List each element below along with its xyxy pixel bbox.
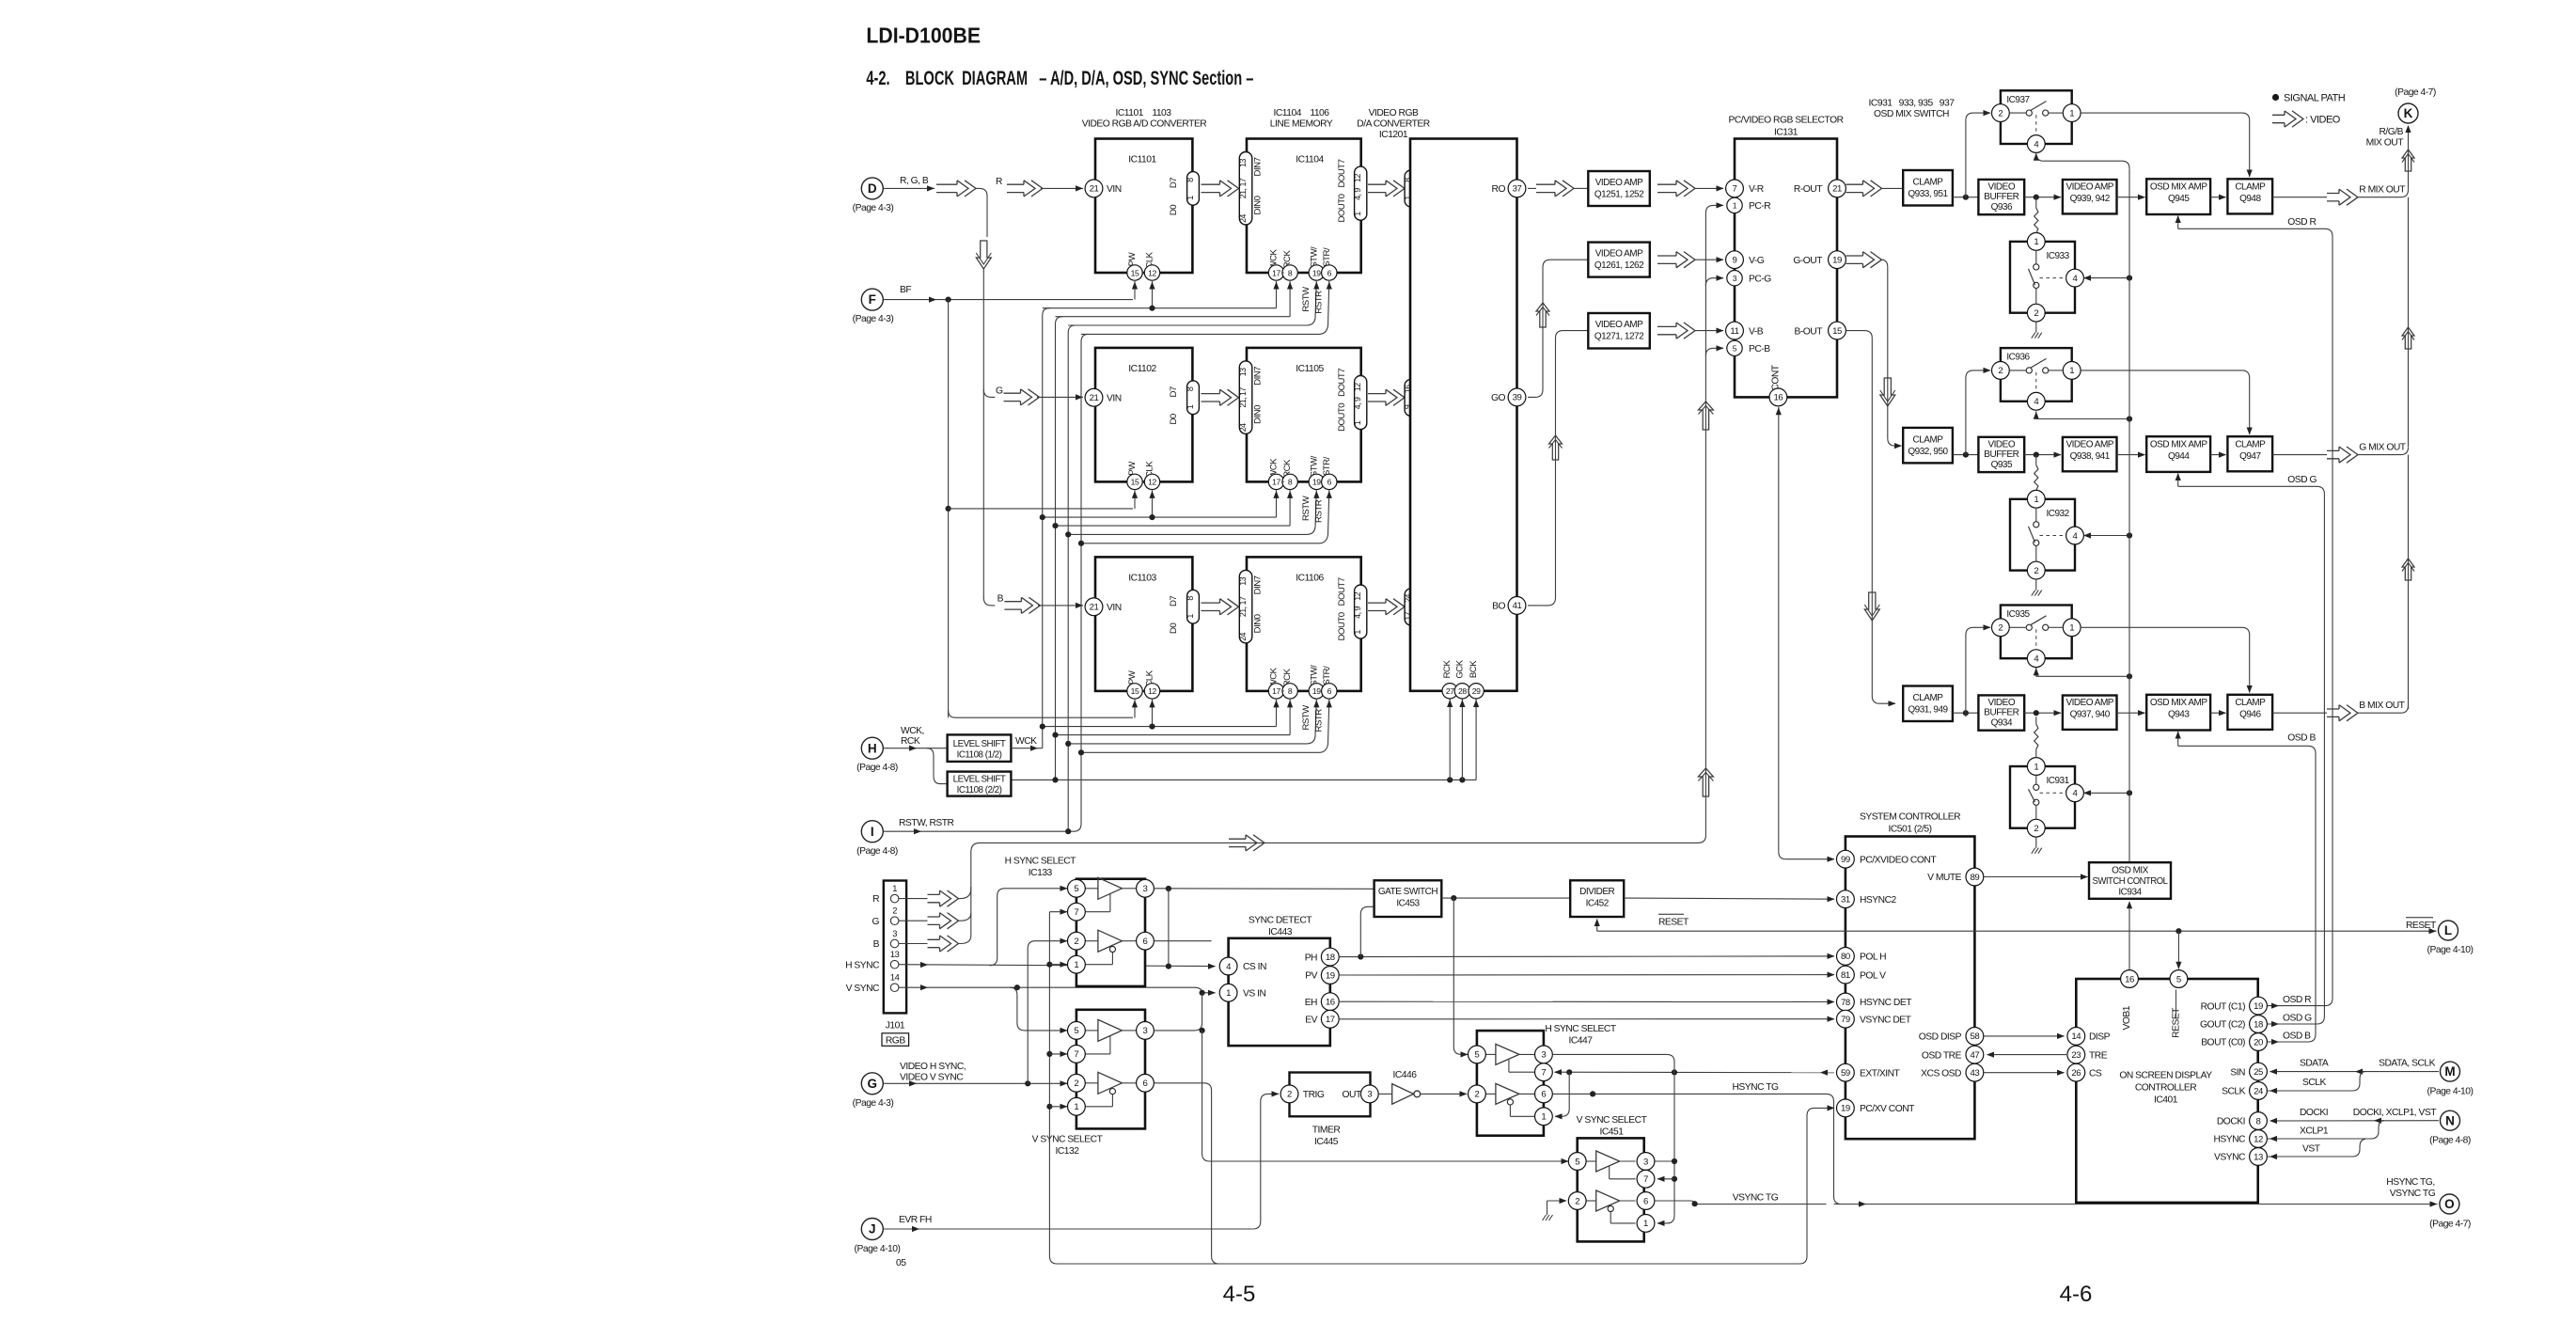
svg-text:VIDEO AMP: VIDEO AMP bbox=[1595, 320, 1643, 330]
wire RCK feed IC1104 bbox=[1056, 316, 1291, 318]
svg-text:PH: PH bbox=[1305, 953, 1317, 963]
wire clamp to buffer bbox=[1953, 197, 1979, 198]
svg-text:3: 3 bbox=[1733, 274, 1737, 283]
pin 1 VS IN bbox=[1219, 984, 1237, 1001]
feed wires below IC1103 bbox=[1134, 700, 1136, 718]
capsule D0-D7 IC1103 bbox=[1187, 590, 1200, 623]
wire J101 RGB bus up bbox=[959, 218, 1706, 899]
svg-text:37: 37 bbox=[1513, 184, 1522, 195]
svg-text:N: N bbox=[2445, 1113, 2455, 1127]
svg-text:M: M bbox=[2444, 1064, 2455, 1079]
A/D converter block IC1102 bbox=[1095, 348, 1192, 482]
wire RESET to IC401 pin5 bbox=[2177, 931, 2179, 969]
svg-text:24: 24 bbox=[1238, 214, 1248, 223]
pin 8 RCK IC1104 bbox=[1282, 265, 1297, 280]
pin 81 POL V bbox=[1837, 966, 1855, 984]
svg-text:28: 28 bbox=[1458, 686, 1467, 696]
video amp Q1271 Q1272 bbox=[1588, 313, 1650, 349]
wire RCK feed IC1105 bbox=[1056, 525, 1291, 527]
svg-text:12: 12 bbox=[1148, 268, 1156, 277]
svg-text:20: 20 bbox=[2254, 1037, 2263, 1047]
wire bus merge B bbox=[957, 936, 970, 944]
svg-text:LEVEL SHIFT: LEVEL SHIFT bbox=[953, 739, 1006, 749]
wire RO to video amp bbox=[1528, 187, 1536, 189]
osd mix switch control block IC934 bbox=[2089, 862, 2171, 899]
svg-text:HSYNC TG: HSYNC TG bbox=[1732, 1082, 1779, 1093]
level shift block IC1108 2/2 bbox=[948, 772, 1012, 796]
ground IC451 pin2 bbox=[1547, 1200, 1567, 1202]
contacts IC931 bbox=[2034, 784, 2039, 790]
svg-text:2: 2 bbox=[1998, 108, 2003, 118]
svg-text:IC131: IC131 bbox=[1774, 128, 1798, 138]
svg-text:(Page 4-10): (Page 4-10) bbox=[2427, 945, 2474, 955]
arrow to V-R bbox=[1657, 184, 1676, 192]
svg-text:D/A CONVERTER: D/A CONVERTER bbox=[1357, 119, 1429, 130]
svg-text:IC936: IC936 bbox=[2006, 353, 2030, 363]
svg-text:VIDEO AMP: VIDEO AMP bbox=[1595, 178, 1643, 188]
timer block IC445 bbox=[1290, 1073, 1371, 1117]
wire IC936 pin4 feed bbox=[2035, 411, 2037, 418]
svg-text:D0: D0 bbox=[1169, 623, 1179, 634]
svg-text:DOUT0: DOUT0 bbox=[1337, 194, 1347, 222]
svg-text:BUFFER: BUFFER bbox=[1984, 449, 2018, 460]
svg-text:IC443: IC443 bbox=[1268, 927, 1293, 937]
svg-text:2: 2 bbox=[1287, 1090, 1292, 1100]
label RESET left bbox=[1658, 913, 1684, 915]
svg-text:21, 17: 21, 17 bbox=[1238, 178, 1248, 198]
svg-text:GO: GO bbox=[1491, 393, 1506, 403]
svg-text:OSD G: OSD G bbox=[2283, 1013, 2312, 1023]
pin 6 IC133 bbox=[1137, 932, 1154, 950]
wire BF bbox=[883, 299, 1133, 301]
pin 19 RSTW IC1106 bbox=[1309, 684, 1324, 699]
svg-text:SYNC DETECT: SYNC DETECT bbox=[1249, 916, 1312, 926]
svg-text:Q1261, 1262: Q1261, 1262 bbox=[1594, 260, 1644, 271]
svg-text:19: 19 bbox=[2254, 1001, 2263, 1012]
wire EXT/XINT net bbox=[1555, 1071, 1835, 1074]
svg-text:IC1102: IC1102 bbox=[1128, 364, 1156, 374]
svg-text:27: 27 bbox=[1446, 686, 1454, 696]
resistor G row bbox=[2034, 465, 2038, 491]
wire IC937 pin1 to clamp bbox=[2081, 113, 2250, 177]
connector L bbox=[2439, 921, 2458, 940]
wire to IC451 pin7 bbox=[1657, 1178, 1674, 1180]
wire RSTW feed IC1106 bbox=[1068, 700, 1316, 744]
svg-text:VIDEO AMP: VIDEO AMP bbox=[2066, 439, 2113, 449]
svg-text:F: F bbox=[869, 292, 876, 307]
pin 21 VIN IC1102 bbox=[1085, 388, 1103, 406]
arrow video right on PC bus bbox=[1229, 839, 1246, 846]
wire GO up to video amp bbox=[1528, 273, 1543, 397]
wire I RSTW RSTR bbox=[883, 830, 1074, 832]
osd mix switch block IC937 bbox=[2001, 90, 2072, 144]
capsule DOUT IC1104 bbox=[1355, 166, 1367, 220]
pin 6 IC447 bbox=[1535, 1085, 1553, 1103]
wire WCK to bus bbox=[1035, 748, 1043, 749]
D/A converter block IC1201 bbox=[1410, 139, 1517, 691]
wire PC-G feed bbox=[1705, 278, 1723, 286]
capsule DOUT IC1105 bbox=[1355, 376, 1367, 430]
pin 4 IC931 bbox=[2066, 784, 2084, 802]
capsule DIN IC1104 bbox=[1239, 152, 1252, 226]
osd mix amp block Q945 bbox=[2146, 179, 2210, 214]
pin 78 HSYNC DET bbox=[1837, 993, 1855, 1011]
svg-text:(Page 4-7): (Page 4-7) bbox=[2429, 1220, 2471, 1230]
wire H to level shifters bbox=[883, 748, 947, 749]
pin 8 RCK IC1105 bbox=[1282, 474, 1297, 489]
svg-text:B: B bbox=[997, 594, 1004, 605]
wire HSYNC TG bbox=[1553, 1093, 1827, 1095]
svg-text:11: 11 bbox=[1730, 326, 1738, 337]
svg-text:RCK: RCK bbox=[1442, 660, 1453, 679]
svg-text:V SYNC SELECT: V SYNC SELECT bbox=[1032, 1135, 1104, 1145]
pin 15 PW IC1102 bbox=[1127, 474, 1142, 489]
svg-text:POL H: POL H bbox=[1860, 953, 1886, 963]
svg-text:RSTW: RSTW bbox=[1301, 286, 1312, 312]
svg-text:RSTR: RSTR bbox=[1314, 291, 1325, 314]
svg-text:15: 15 bbox=[1131, 268, 1139, 277]
svg-text:29: 29 bbox=[1472, 686, 1481, 696]
wire EVR FH to TRIG bbox=[883, 1228, 1253, 1230]
arrow video down on D branch bbox=[976, 241, 991, 269]
svg-text:L: L bbox=[2444, 923, 2452, 937]
wire clamp to buffer bbox=[1953, 454, 1979, 456]
svg-text:DOCKI, XCLP1, VST: DOCKI, XCLP1, VST bbox=[2353, 1108, 2437, 1118]
svg-text:ON SCREEN DISPLAY: ON SCREEN DISPLAY bbox=[2119, 1071, 2212, 1081]
svg-text:17: 17 bbox=[1272, 268, 1280, 277]
svg-text:8: 8 bbox=[1288, 478, 1293, 487]
wire V SYNC from J101 bbox=[899, 986, 1194, 988]
arrow video up on PC vertical bbox=[1698, 402, 1713, 430]
svg-text:3: 3 bbox=[1643, 1157, 1648, 1167]
wire buffer to amp bbox=[2024, 712, 2061, 714]
svg-text:89: 89 bbox=[1970, 873, 1979, 883]
pin 14 DISP bbox=[2067, 1028, 2085, 1046]
svg-text:VIDEO H SYNC,: VIDEO H SYNC, bbox=[900, 1062, 966, 1072]
wire IC446 to IC447 pin2 bbox=[1421, 1093, 1467, 1095]
ground IC933 bbox=[2035, 322, 2037, 333]
pin 4 IC936 bbox=[2027, 392, 2045, 410]
wire PC-B feed bbox=[1705, 348, 1723, 355]
svg-text:DOCKI: DOCKI bbox=[2300, 1108, 2328, 1118]
osd mix switch block IC931 bbox=[2010, 766, 2075, 828]
svg-text:SDATA: SDATA bbox=[2300, 1059, 2329, 1069]
svg-text:(Page 4-3): (Page 4-3) bbox=[853, 1098, 894, 1109]
svg-text:18: 18 bbox=[2254, 1019, 2263, 1030]
svg-text:DOUT7: DOUT7 bbox=[1337, 577, 1347, 606]
connector J bbox=[861, 1219, 883, 1240]
wire DOCKI to pin8 bbox=[2270, 1120, 2440, 1122]
svg-text:13: 13 bbox=[2254, 1152, 2263, 1162]
svg-text:IC932: IC932 bbox=[2047, 509, 2070, 519]
svg-text:IC133: IC133 bbox=[1029, 868, 1053, 878]
pin 3 IC133 bbox=[1137, 879, 1154, 897]
svg-text:8: 8 bbox=[2256, 1116, 2261, 1126]
svg-text:VIDEO RGB A/D CONVERTER: VIDEO RGB A/D CONVERTER bbox=[1082, 119, 1207, 130]
wire G to IC132 pin2 bbox=[883, 1082, 1067, 1084]
arrows J101 RGB bbox=[899, 898, 928, 900]
svg-text:HSYNC2: HSYNC2 bbox=[1860, 895, 1897, 906]
svg-text:1: 1 bbox=[1074, 1102, 1078, 1112]
wire H SYNC branch to IC133 pin5 bbox=[990, 889, 1067, 966]
svg-text:VIDEO AMP: VIDEO AMP bbox=[1595, 249, 1643, 260]
svg-text:EH: EH bbox=[1305, 998, 1317, 1008]
svg-text:GATE SWITCH: GATE SWITCH bbox=[1378, 887, 1437, 897]
svg-text:6: 6 bbox=[1643, 1196, 1648, 1206]
wire RSTR feed IC1105 bbox=[1081, 490, 1329, 543]
svg-text:VSYNC: VSYNC bbox=[2214, 1153, 2246, 1163]
capsule IC1201 input bbox=[1405, 589, 1417, 625]
pin 2 IC451 bbox=[1568, 1192, 1586, 1210]
svg-text:VIDEO AMP: VIDEO AMP bbox=[2066, 698, 2113, 708]
switch lever IC936 bbox=[2031, 358, 2047, 368]
svg-text:D0: D0 bbox=[1169, 205, 1179, 215]
svg-text:7: 7 bbox=[1074, 1049, 1078, 1060]
wire amp to osd mix amp bbox=[2117, 454, 2145, 456]
svg-text:BUFFER: BUFFER bbox=[1984, 708, 2018, 718]
svg-text:(Page 4-8): (Page 4-8) bbox=[2429, 1136, 2471, 1146]
pin 19 RSTW IC1105 bbox=[1309, 474, 1324, 489]
svg-text:VIDEO RGB: VIDEO RGB bbox=[1369, 108, 1419, 118]
svg-text:PC/VIDEO RGB SELECTOR: PC/VIDEO RGB SELECTOR bbox=[1728, 116, 1843, 126]
svg-text:1: 1 bbox=[2034, 237, 2038, 247]
svg-text:IC445: IC445 bbox=[1314, 1137, 1339, 1147]
osd mix switch block IC935 bbox=[2001, 606, 2072, 659]
svg-text:OSD MIX AMP: OSD MIX AMP bbox=[2150, 698, 2207, 708]
svg-text:7: 7 bbox=[1733, 184, 1737, 195]
wire XCS OSD to CS bbox=[1984, 1072, 2065, 1074]
svg-text:H: H bbox=[868, 741, 877, 755]
wire IC936 pin1 to clamp bbox=[2081, 370, 2250, 434]
svg-text:G: G bbox=[868, 1077, 878, 1091]
wire RCK feed IC1106 bbox=[1056, 734, 1291, 736]
osd mix amp block Q943 bbox=[2146, 695, 2210, 731]
svg-text:2: 2 bbox=[2034, 308, 2038, 319]
wire osd mix amp to clamp bbox=[2210, 712, 2225, 714]
svg-text:VIDEO AMP: VIDEO AMP bbox=[2066, 182, 2113, 193]
svg-text:BUFFER: BUFFER bbox=[1984, 192, 2018, 202]
wire to connector O bbox=[1834, 1204, 2438, 1205]
svg-text:CLAMP: CLAMP bbox=[2235, 698, 2266, 708]
pin 3 OUT bbox=[1360, 1085, 1378, 1103]
svg-text:VIN: VIN bbox=[1107, 393, 1122, 403]
wire IC447 pin3 net bbox=[1553, 1054, 1675, 1072]
svg-text:MIX OUT: MIX OUT bbox=[2366, 138, 2405, 149]
svg-text:DOUT0: DOUT0 bbox=[1337, 403, 1347, 432]
sync select block IC132 bbox=[1076, 1010, 1145, 1129]
pin 1 IC133 bbox=[1068, 955, 1086, 973]
pin 99 PC/XVIDEO CONT bbox=[1837, 850, 1855, 868]
svg-text:LDI-D100BE: LDI-D100BE bbox=[866, 23, 981, 47]
svg-text:DOUT7: DOUT7 bbox=[1337, 159, 1347, 187]
arrow IC1103 to IC1106 bbox=[1202, 603, 1220, 610]
wire bus merge G bbox=[959, 913, 971, 921]
svg-text:3: 3 bbox=[1367, 1090, 1372, 1100]
video buffer block Q935 bbox=[1978, 437, 2024, 472]
svg-text:24: 24 bbox=[1238, 423, 1248, 432]
svg-text:Q947: Q947 bbox=[2239, 451, 2261, 462]
svg-text:5: 5 bbox=[1074, 1026, 1078, 1036]
control bus vertical IC934 bbox=[2128, 168, 2130, 862]
pin 3 IC447 bbox=[1535, 1046, 1553, 1063]
capsule DIN IC1106 bbox=[1239, 570, 1252, 643]
pin 17 WCK IC1105 bbox=[1268, 474, 1283, 489]
wire branch to G VIN bbox=[983, 389, 995, 397]
wire RSTR feed IC1104 bbox=[1081, 281, 1329, 334]
svg-text:19: 19 bbox=[1841, 1104, 1850, 1114]
wire amp to osd mix amp bbox=[2117, 712, 2145, 714]
svg-text:21: 21 bbox=[1090, 393, 1099, 403]
svg-text:15: 15 bbox=[1131, 686, 1139, 696]
capsule D0-D7 IC1101 bbox=[1187, 172, 1200, 206]
video amp Q1261 Q1262 bbox=[1588, 243, 1650, 277]
svg-text:8: 8 bbox=[1288, 268, 1293, 277]
wire PC-R feed bbox=[1705, 205, 1723, 218]
svg-text:1: 1 bbox=[1643, 1219, 1648, 1229]
svg-text:B: B bbox=[873, 939, 880, 950]
pin 2 IC932 bbox=[2027, 561, 2045, 579]
video amp block Q939, 942 bbox=[2063, 180, 2117, 213]
svg-text:DIVIDER: DIVIDER bbox=[1579, 887, 1614, 897]
svg-text:DIN0: DIN0 bbox=[1253, 405, 1264, 424]
contacts IC932 bbox=[2034, 522, 2039, 528]
wire TRE to OSD TRE bbox=[1987, 1054, 2067, 1056]
svg-text:7: 7 bbox=[1643, 1174, 1648, 1185]
svg-text:(Page 4-8): (Page 4-8) bbox=[856, 846, 898, 857]
pin4 feed IC933 bbox=[2084, 277, 2130, 279]
svg-text:26: 26 bbox=[2071, 1068, 2081, 1079]
video amp block Q938, 941 bbox=[2063, 437, 2117, 471]
svg-text:B MIX OUT: B MIX OUT bbox=[2359, 701, 2405, 711]
svg-text:HSYNC: HSYNC bbox=[2213, 1135, 2246, 1145]
svg-text:5: 5 bbox=[1074, 884, 1078, 894]
wire to mix out bbox=[2272, 197, 2327, 198]
svg-text:12: 12 bbox=[1148, 686, 1156, 696]
wire IC935 pin2 feed bbox=[1966, 627, 1990, 717]
connector J101 bbox=[884, 881, 906, 1014]
svg-text:16: 16 bbox=[1773, 393, 1783, 403]
svg-text:12: 12 bbox=[1353, 591, 1362, 600]
switch lever IC937 bbox=[2031, 102, 2047, 111]
wire to mix out bbox=[2272, 712, 2327, 714]
svg-text:LINE MEMORY: LINE MEMORY bbox=[1270, 119, 1333, 130]
line memory block IC1106 bbox=[1247, 557, 1361, 691]
svg-text:80: 80 bbox=[1841, 952, 1850, 962]
legend signal path bbox=[2272, 94, 2279, 101]
pin 1 IC132 bbox=[1068, 1097, 1086, 1115]
dashed IC933 bbox=[2040, 277, 2066, 279]
capsule DIN IC1105 bbox=[1239, 361, 1252, 434]
pin 3 IC451 bbox=[1637, 1153, 1655, 1171]
wire mix out to K column bbox=[2358, 705, 2409, 713]
wire to mix out bbox=[2272, 454, 2327, 456]
svg-text:OSD TRE: OSD TRE bbox=[1922, 1050, 1962, 1061]
BF feed row2 bbox=[949, 508, 1133, 510]
WCK bus vertical bbox=[1043, 308, 1050, 741]
pin 2 TRIG bbox=[1280, 1085, 1298, 1103]
lever IC933 bbox=[2029, 269, 2035, 285]
svg-text:24: 24 bbox=[2254, 1086, 2264, 1096]
svg-text:4, 9: 4, 9 bbox=[1353, 606, 1362, 618]
svg-text:XCS OSD: XCS OSD bbox=[1921, 1068, 1961, 1079]
wire IC132 out3 bbox=[1154, 993, 1202, 1031]
sync select block IC133 bbox=[1076, 879, 1145, 986]
svg-text:Q945: Q945 bbox=[2168, 194, 2190, 204]
svg-text:V MUTE: V MUTE bbox=[1927, 873, 1962, 883]
svg-text:OUT: OUT bbox=[1343, 1090, 1362, 1100]
pin 79 VSYNC DET bbox=[1837, 1010, 1855, 1028]
wire D branch vertical bbox=[982, 269, 984, 598]
svg-text:V-R: V-R bbox=[1749, 184, 1764, 195]
pin 19 RSTW IC1104 bbox=[1309, 265, 1324, 280]
svg-text:H SYNC: H SYNC bbox=[845, 960, 880, 970]
wire G-OUT routing bbox=[1846, 256, 1863, 263]
svg-text:H SYNC SELECT: H SYNC SELECT bbox=[1545, 1024, 1617, 1034]
switch dashed IC937 bbox=[2035, 115, 2037, 134]
svg-text:G: G bbox=[996, 386, 1003, 397]
connector F bbox=[861, 289, 883, 310]
svg-text:15: 15 bbox=[1832, 326, 1842, 337]
wire IC937 pin4 feed bbox=[2036, 152, 2129, 168]
svg-text:VIN: VIN bbox=[1107, 184, 1122, 195]
svg-text:V SYNC SELECT: V SYNC SELECT bbox=[1577, 1115, 1648, 1126]
svg-text:DOCKI: DOCKI bbox=[2217, 1117, 2245, 1127]
svg-text:1: 1 bbox=[2034, 762, 2038, 772]
capsule IC1201 input bbox=[1405, 170, 1417, 207]
svg-text:SDATA, SCLK: SDATA, SCLK bbox=[2379, 1059, 2436, 1069]
svg-text:G-OUT: G-OUT bbox=[1793, 256, 1823, 266]
label RESET right bbox=[2406, 917, 2433, 919]
pin 12 CLK IC1101 bbox=[1144, 265, 1159, 280]
svg-text:RSTR: RSTR bbox=[1314, 499, 1325, 523]
pin 2 IC133 bbox=[1068, 932, 1086, 950]
svg-text:Q946: Q946 bbox=[2239, 710, 2261, 720]
wire H SYNC from J101 bbox=[899, 965, 1216, 967]
pin 9 V-G bbox=[1726, 251, 1744, 269]
svg-text:39: 39 bbox=[1513, 393, 1522, 403]
svg-text:15: 15 bbox=[1131, 478, 1139, 487]
wire IC451 pin3 stub bbox=[1655, 1160, 1674, 1162]
wire WCK feed IC1104 bbox=[1043, 307, 1277, 309]
svg-text:1: 1 bbox=[1074, 960, 1078, 970]
svg-text:IC501 (2/5): IC501 (2/5) bbox=[1888, 824, 1931, 834]
svg-text:V-G: V-G bbox=[1749, 256, 1765, 266]
clamp block Q933, 951 bbox=[1903, 170, 1953, 206]
svg-text:Q936: Q936 bbox=[1991, 202, 2013, 213]
wire EH to HSYNC DET bbox=[1339, 1000, 1834, 1002]
svg-text:CLAMP: CLAMP bbox=[2235, 182, 2266, 193]
svg-text:R/G/B: R/G/B bbox=[2379, 127, 2403, 137]
svg-text:3: 3 bbox=[1143, 1026, 1148, 1036]
lever IC932 bbox=[2029, 527, 2035, 543]
wire RESET long bbox=[1597, 930, 2437, 932]
wire gate switch to IC447 pin5 bbox=[1453, 898, 1468, 1054]
arrow IC1106 to IC1201 bbox=[1368, 603, 1386, 610]
svg-text:RGB: RGB bbox=[886, 1035, 905, 1046]
pin 6 RSTR IC1106 bbox=[1322, 684, 1337, 699]
svg-text:21, 17: 21, 17 bbox=[1238, 596, 1248, 617]
svg-text:Q932, 950: Q932, 950 bbox=[1908, 447, 1948, 457]
svg-text:5: 5 bbox=[1575, 1157, 1579, 1167]
svg-text:19: 19 bbox=[1312, 686, 1321, 696]
dashed IC932 bbox=[2040, 535, 2066, 537]
wire IC133 out3 to gate switch bbox=[1154, 888, 1374, 890]
wire PV to POL V bbox=[1339, 974, 1834, 976]
wire gate switch out bbox=[1441, 897, 1570, 899]
pin 23 TRE bbox=[2067, 1046, 2085, 1063]
capsule DOUT IC1106 bbox=[1355, 585, 1367, 638]
wire clamp to buffer bbox=[1953, 712, 1979, 714]
